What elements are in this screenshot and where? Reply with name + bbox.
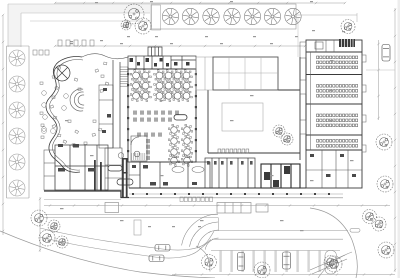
elevator core [261,164,300,188]
tree T2 [182,8,198,24]
tree SW4 [56,236,68,248]
tree T6 [264,8,280,24]
entrance steps row [180,197,213,202]
stadium table B [117,179,133,185]
dining table 5 [172,70,184,82]
service rooms above hall [128,56,196,69]
stair rungs [120,67,128,86]
tree cluster top B [135,18,151,34]
dimension line upper inner [55,45,305,47]
dining table 19 [168,124,179,135]
dining table 21 [168,135,179,146]
tree SE0 [376,134,392,150]
S road west lower [40,237,211,258]
gray seat rows upper [133,111,179,161]
car road 2 [149,255,164,262]
parking stall dividers [220,251,331,273]
toilet block [205,158,255,188]
seat rows room 2 [317,85,358,98]
right wing outline [306,40,362,188]
stairs hatch in office [132,153,145,160]
tree T4 [224,8,240,24]
west porch [105,203,119,213]
courtyard right wall extension [297,18,299,57]
tree L4 [9,128,25,144]
dining table 11 [172,80,184,92]
site boundary curve [0,231,215,278]
courtyard walls [208,57,300,160]
hall wall column ticks [127,73,197,152]
small office in hall [131,136,147,161]
S road west upper [40,228,214,250]
mid circle [118,153,124,159]
courtyard pool [222,103,263,131]
dining table 14 [140,90,152,102]
core dark cells [264,166,290,187]
restaurant seats scatter [40,62,109,146]
right ramp lines [310,255,347,274]
dining table 17 [172,90,184,102]
dining table 7 [130,80,142,92]
dining table 6 [181,70,193,82]
west colonnade dim [44,199,121,201]
east road line [366,69,395,71]
tree cluster top C [121,20,131,30]
corridor walls [113,60,128,160]
room south of hall [129,162,140,188]
wing corridor [310,52,312,150]
building south wall [129,187,306,189]
dining table 10 [163,80,175,92]
tree T1 [162,8,178,24]
road edge lines east [212,231,348,240]
corridor east of courtyard [305,57,307,150]
tree SW2 [48,220,60,232]
kitchen ovals [172,167,204,173]
seat rows room 1 [317,56,358,69]
round feature with cross [54,65,70,81]
planting strip left [7,46,30,198]
mid cells south [105,148,122,190]
dining table 9 [154,80,166,92]
tree L5 [9,154,25,170]
terrace scalloped edge top [82,54,128,59]
east porch [256,204,268,212]
dimension line top [55,2,345,4]
building bottom edge east [129,197,343,199]
wing top dark striped block [339,39,355,47]
dining table 24 [181,146,192,157]
tree SE3 [372,217,386,231]
car road 1 [155,245,170,252]
road edge lines west [44,215,219,232]
dining table 2 [140,70,152,82]
west cells of wing [300,42,306,134]
wing bottom fixtures [310,154,356,177]
west edge cells [44,150,55,190]
kitchen fixtures [143,165,197,186]
dimension line bottom [172,274,395,276]
sheet edge right [398,0,400,278]
tree T5 [244,8,260,24]
west room fixtures [58,144,95,172]
wing right bumps [362,55,366,152]
dining hall outline [128,69,196,162]
tree NE [341,20,355,34]
car parked 2 [283,252,291,269]
island tree west [202,255,217,270]
kitchen block [140,162,210,188]
dimension line left [2,15,4,235]
seat rows room 3 [317,114,358,127]
parking stalls top line [211,250,340,252]
road band top-left [8,4,150,47]
lobby box above hall [148,47,162,56]
banquette arcs [70,89,84,111]
west service rooms [55,145,108,190]
lift shaft dark walls [94,158,128,198]
tree L6 [9,180,25,196]
right road curve B [318,252,352,278]
right curve stadium island [350,229,360,233]
seat rows room 4 [317,140,358,148]
dining table 25 [168,155,179,166]
curvy west wall outer [46,57,82,173]
service room dark fills [130,58,190,67]
colonnade line [129,193,343,195]
connector rooms gym-left [196,57,213,90]
dining table 26 [181,155,192,166]
right road curve A [310,208,357,278]
tree T7 [285,8,301,24]
courtyard seat row [218,149,249,153]
parking island west curve [196,246,210,272]
driveway arcs [182,214,219,250]
dining table 20 [181,124,192,135]
tree S1 [326,256,342,272]
room label specks [60,60,354,231]
dimension line right inner [378,40,380,120]
building bottom edge west [44,191,129,198]
stadium counter [174,115,187,120]
courtyard tree A [273,125,285,137]
stadium table A [108,166,122,172]
terrace circles west [42,129,56,134]
dining table 16 [163,90,175,102]
road specks [148,226,201,227]
curvy west wall inner [50,60,84,171]
dining table 12 [181,80,193,92]
wing top room cells [315,40,334,52]
dining table 3 [154,70,166,82]
entrance porch [217,203,251,214]
car east [382,45,390,62]
tree SE4 [378,242,394,258]
wing bottom rooms [306,150,362,188]
room south of hall mark [132,165,136,168]
tree SW1 [31,210,47,226]
tree S2 [254,262,270,278]
tree SW3 [39,230,55,246]
dining table 15 [154,90,166,102]
dining table 8 [140,80,152,92]
dining table 23 [168,146,179,157]
tree T3 [203,8,219,24]
dining table 4 [163,70,175,82]
tree cluster top A [124,4,144,24]
gym grid building [213,57,278,90]
toilet fixtures [207,161,253,165]
dimension line SW [39,197,41,252]
tree SE2 [363,210,377,224]
mid rooms dark marks [102,88,111,133]
mid rooms block [99,85,113,148]
terrace columns [132,193,330,195]
dining table 1 [130,70,142,82]
dining table 13 [130,90,142,102]
dining table 22 [181,135,192,146]
tree SE1 [377,176,393,192]
pergola divider box [152,5,161,30]
car parked 1 [238,253,245,271]
terrace furniture rows [33,40,94,55]
dim line NE [296,13,357,22]
label specks [70,1,345,44]
courtyard tree B [281,133,293,145]
tree L1 [9,50,25,66]
tree L3 [9,102,25,118]
pergola band top [151,4,296,29]
island tree east [324,256,337,269]
parking island east [325,251,337,275]
dimension line bottom inner [44,205,390,207]
tree L2 [9,76,25,92]
bus stop box [134,220,141,235]
dimension line right [394,8,396,272]
dining table 18 [181,90,193,102]
